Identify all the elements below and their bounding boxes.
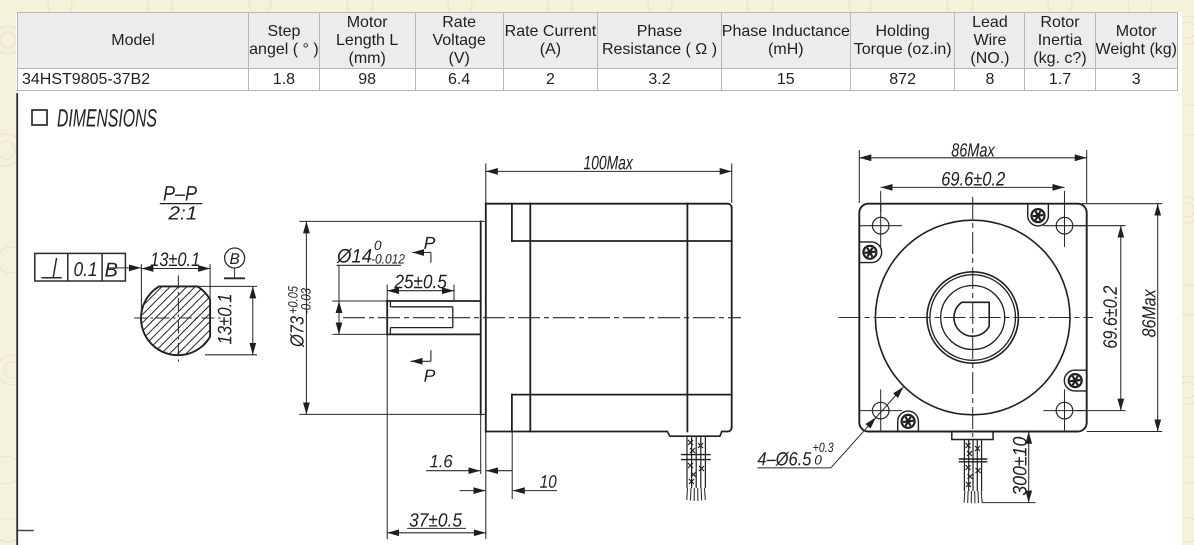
dim 10: [460, 432, 558, 500]
screw bottom: [902, 415, 915, 428]
stack bottom line: [512, 394, 732, 396]
motor body top edge: [486, 204, 732, 208]
wire exit bushing (side): [667, 432, 722, 437]
shaft flat top line: [390, 306, 452, 308]
section P arrow bottom: [411, 350, 431, 361]
section P arrow top: [412, 253, 431, 263]
2:1 label: [168, 206, 195, 219]
mounting hole top-left: [860, 205, 902, 247]
feature control frame (perpendicularity 0.1 B): [35, 253, 126, 281]
front view centerlines: [839, 317, 1093, 319]
motor back face: [731, 208, 733, 428]
shaft end face: [386, 301, 388, 334]
shaft section outline: [141, 286, 210, 355]
boss circle outer: [927, 272, 1018, 363]
mounting hole bottom-left: [860, 389, 902, 431]
screw left: [863, 246, 876, 259]
dim 86Max top: [859, 150, 1086, 203]
wire strands (front): [964, 491, 982, 503]
DIMENSIONS title: [58, 109, 157, 127]
DIMENSIONS checkbox: [32, 110, 47, 125]
fraction line: [160, 203, 203, 205]
screw tab bottom: [898, 411, 919, 431]
screw right: [1069, 374, 1082, 387]
spec table: [17, 12, 1178, 91]
wire bundle (side): [687, 436, 705, 488]
dim 100Max: [486, 164, 732, 204]
stack top line: [512, 240, 732, 242]
screw top: [1032, 209, 1045, 222]
wire clamp band (side): [681, 454, 711, 456]
dim 69.6+-0.2 right: [1075, 226, 1126, 411]
screw tab top: [1028, 204, 1049, 226]
wire bundle (front): [964, 440, 981, 492]
page frame left border line: [16, 94, 18, 545]
pilot boss front face: [480, 221, 482, 414]
section hatching: [130, 272, 293, 435]
rear end-cap line: [686, 204, 688, 432]
boss circle inner: [930, 275, 1016, 361]
section centerlines: [134, 317, 223, 319]
datum B circle: [225, 248, 245, 268]
shaft centerline: [343, 317, 741, 319]
face circle: [875, 220, 1070, 415]
screw tab left: [859, 242, 881, 263]
dim 86Max right: [1082, 204, 1162, 432]
shaft flat bottom line: [390, 327, 452, 329]
flat end ticks: [389, 301, 391, 307]
dim 25+-0.5: [387, 285, 454, 302]
dim 37+-0.5: [387, 334, 486, 539]
flange back edge upper: [511, 204, 513, 241]
shaft top: [387, 300, 481, 302]
flange back edge lower: [511, 395, 513, 432]
wire exit bushing (front): [952, 432, 993, 440]
screw tab right: [1064, 370, 1086, 391]
dim diameter 73: [299, 221, 485, 414]
flange front face: [485, 204, 487, 432]
dim 13+-0.1 horizontal: [140, 264, 142, 319]
front end-cap line: [529, 204, 531, 432]
frame centering tick: [17, 530, 33, 532]
P-P label: [164, 186, 197, 200]
shaft bottom: [387, 333, 481, 335]
dim 13+-0.1 vertical (right of section): [198, 285, 257, 287]
dim 1.6: [426, 414, 512, 474]
wire clamp band (front): [959, 458, 988, 460]
mounting hole bottom-right: [1043, 389, 1085, 431]
leader 4-diam6.5: [757, 387, 903, 468]
front view: body outline: [859, 204, 1086, 432]
bearing circle: [941, 286, 1005, 350]
motor body bottom edge: [486, 431, 668, 433]
dim 300+-10: [982, 432, 1036, 503]
wire strands (side): [687, 488, 706, 501]
leader arrow from frame to section: [107, 267, 141, 269]
dim diameter 14 tolerance: [332, 265, 401, 334]
side view: motor outline: [387, 204, 732, 432]
mounting hole top-right: [1043, 205, 1085, 247]
shaft circle with two flats: [954, 302, 989, 336]
dim 69.6+-0.2 top: [881, 187, 1065, 212]
